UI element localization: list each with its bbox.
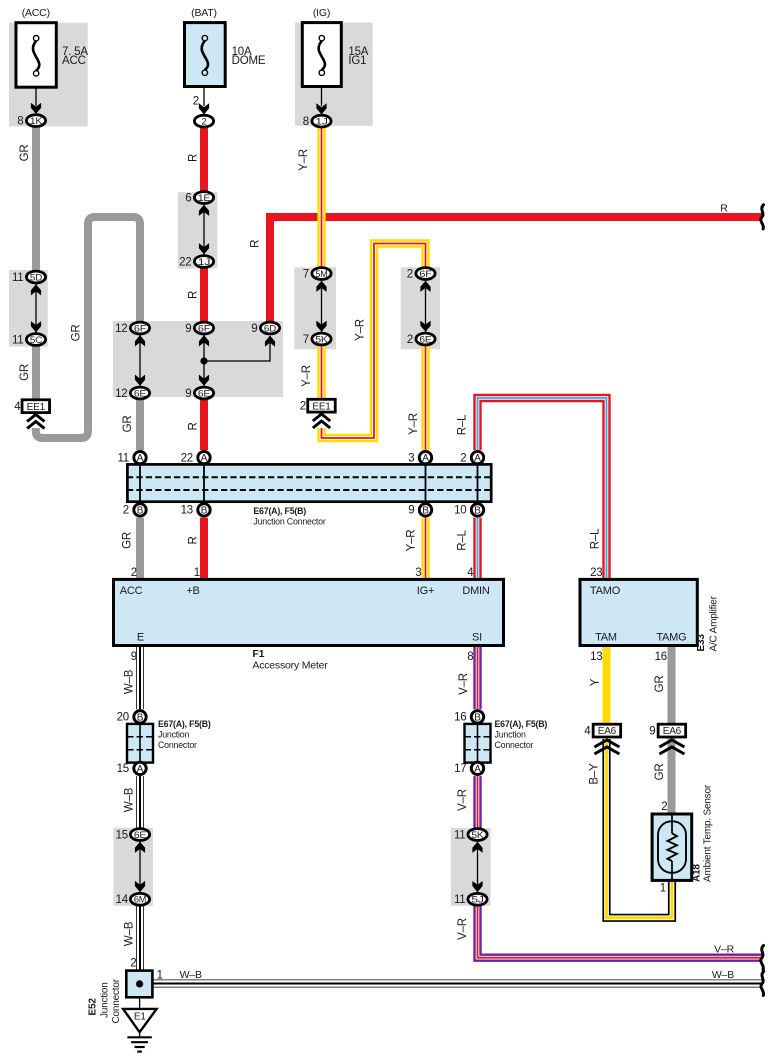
svg-text:1J: 1J <box>315 117 328 128</box>
shaded panel connectors 5M-5K <box>294 267 336 349</box>
connector 6F left <box>130 322 149 334</box>
svg-text:5J: 5J <box>471 895 484 906</box>
connector 5K <box>312 333 331 345</box>
connector 5C <box>26 334 45 346</box>
svg-text:Junction: Junction <box>100 982 111 1018</box>
svg-text:E52: E52 <box>88 998 99 1016</box>
node A col3 <box>419 451 431 464</box>
svg-text:15: 15 <box>116 829 128 841</box>
svg-text:V–R: V–R <box>457 789 469 811</box>
svg-text:E: E <box>137 632 144 644</box>
svg-text:1: 1 <box>194 567 200 579</box>
wire Y-R 5K to EE1 <box>317 346 325 401</box>
ground point EA6 right <box>658 724 686 737</box>
wire R-L junction B to F1 DMIN <box>473 518 481 581</box>
svg-text:6E: 6E <box>134 388 146 399</box>
fuse 10A DOME <box>185 23 226 87</box>
svg-text:11: 11 <box>454 894 466 906</box>
svg-text:2: 2 <box>131 567 137 579</box>
svg-text:A/C Amplifier: A/C Amplifier <box>709 595 720 651</box>
svg-text:Y: Y <box>590 678 602 686</box>
svg-text:F1: F1 <box>252 648 264 660</box>
svg-text:2: 2 <box>201 117 206 128</box>
connector 6E right <box>416 333 435 345</box>
connector 1E <box>194 192 213 204</box>
svg-text:A: A <box>474 453 481 464</box>
svg-text:R: R <box>188 422 200 430</box>
node B col2 <box>198 504 210 517</box>
arrow pair 5K-5J lower <box>472 841 482 894</box>
svg-text:(IG): (IG) <box>313 7 330 19</box>
svg-text:EE1: EE1 <box>312 401 331 412</box>
connector 1J <box>194 256 213 268</box>
connector 5J <box>468 893 487 905</box>
arrow pair 6F-6E left <box>135 334 145 387</box>
node B small left <box>134 711 146 724</box>
connector 6F mid <box>194 322 213 334</box>
svg-text:+B: +B <box>186 585 199 597</box>
break symbol R wire top <box>761 205 764 229</box>
svg-text:6E: 6E <box>419 334 431 345</box>
svg-text:5K: 5K <box>315 334 328 345</box>
svg-text:R: R <box>188 154 200 162</box>
wire R horizontal to 6D <box>270 217 762 321</box>
arrow pair 6F-6E right <box>420 280 430 334</box>
svg-text:TAMG: TAMG <box>656 632 686 644</box>
svg-text:IG+: IG+ <box>417 585 434 597</box>
node B col4 <box>471 504 483 517</box>
svg-text:3: 3 <box>408 452 414 464</box>
svg-text:5M: 5M <box>315 269 327 280</box>
svg-text:6M: 6M <box>134 895 146 906</box>
connector 6E mid <box>194 387 213 399</box>
svg-text:Y–R: Y–R <box>301 365 313 387</box>
wire GR EE1 loop to 6F <box>36 217 140 438</box>
svg-text:TAM: TAM <box>595 632 617 644</box>
svg-text:A: A <box>422 453 429 464</box>
svg-text:GR: GR <box>654 764 666 781</box>
svg-text:1J: 1J <box>198 257 211 268</box>
shaded panel connectors 1E-1J <box>178 192 218 268</box>
svg-text:A: A <box>137 764 144 775</box>
svg-text:B: B <box>137 506 144 517</box>
svg-text:6D: 6D <box>264 323 277 334</box>
node A col2 <box>198 451 210 464</box>
svg-text:R–L: R–L <box>457 529 469 550</box>
svg-text:E33: E33 <box>696 634 707 652</box>
junction connector block right <box>465 724 491 763</box>
wire R junction B to F1 +B <box>200 518 208 581</box>
wire Y-R IG to 5M <box>317 128 325 267</box>
arrow pair 6F-6E mid <box>199 334 209 387</box>
svg-text:V–R: V–R <box>458 673 470 695</box>
svg-text:R–L: R–L <box>590 528 602 549</box>
wire W-B 6M to E52 <box>136 906 144 972</box>
svg-text:GR: GR <box>19 364 31 381</box>
svg-text:13: 13 <box>181 505 193 517</box>
svg-text:GR: GR <box>122 416 134 433</box>
wire GR 6E to junction A <box>136 400 144 450</box>
connector 5D <box>26 271 45 283</box>
svg-text:14: 14 <box>116 894 129 906</box>
svg-text:6E: 6E <box>134 830 146 841</box>
svg-text:B–Y: B–Y <box>589 763 601 785</box>
fuse BAT output arrow <box>199 87 209 115</box>
svg-text:9: 9 <box>251 323 257 335</box>
connector 5K lower <box>468 829 487 841</box>
wire Y TAM to EA6 <box>603 644 611 725</box>
wire Y-R EE1 loop to 6F <box>322 244 426 439</box>
svg-text:4: 4 <box>14 401 21 413</box>
svg-text:IG1: IG1 <box>348 55 366 67</box>
svg-text:2: 2 <box>193 96 199 108</box>
node B col1 <box>134 504 146 517</box>
svg-text:B: B <box>422 506 429 517</box>
svg-text:Y–R: Y–R <box>406 530 418 552</box>
svg-text:5K: 5K <box>471 830 484 841</box>
svg-text:1E: 1E <box>198 193 210 204</box>
ground point EE1 left <box>22 400 50 413</box>
svg-text:Ambient Temp. Sensor: Ambient Temp. Sensor <box>703 784 714 882</box>
wire V-R 5J to right edge <box>478 906 762 958</box>
svg-text:ACC: ACC <box>62 55 86 67</box>
wire GR 5C to EE1 <box>32 346 40 400</box>
svg-text:A: A <box>201 453 208 464</box>
junction connector E52 <box>126 971 152 998</box>
svg-text:Y–R: Y–R <box>298 149 310 171</box>
svg-text:6F: 6F <box>134 323 147 334</box>
svg-text:V–R: V–R <box>714 944 734 956</box>
svg-text:EA6: EA6 <box>663 726 682 737</box>
shaded panel connectors 6F-6E-6D <box>113 321 283 397</box>
svg-text:5C: 5C <box>30 335 43 346</box>
svg-text:B: B <box>474 713 481 724</box>
component E33 A/C Amplifier <box>580 579 697 645</box>
svg-text:Junction: Junction <box>158 730 189 740</box>
svg-text:Accessory Meter: Accessory Meter <box>252 660 328 672</box>
svg-text:ACC: ACC <box>120 585 143 597</box>
svg-text:12: 12 <box>115 323 127 335</box>
svg-text:23: 23 <box>590 567 602 579</box>
wire W-B F1 E to junction B <box>136 644 144 709</box>
svg-text:GR: GR <box>71 325 83 342</box>
ground symbol <box>127 1032 151 1051</box>
svg-text:W–B: W–B <box>124 921 136 946</box>
svg-text:TAMO: TAMO <box>590 585 621 597</box>
shield chevron EE1 mid <box>313 414 330 428</box>
shaded panel connectors 5D-5C <box>9 270 48 347</box>
svg-text:12: 12 <box>115 388 127 400</box>
svg-text:6F: 6F <box>198 323 211 334</box>
svg-text:7: 7 <box>303 268 309 280</box>
svg-text:4: 4 <box>467 567 474 579</box>
node A col1 <box>134 451 146 464</box>
component A18 Ambient Temp Sensor <box>652 814 692 880</box>
svg-text:8: 8 <box>17 115 23 127</box>
svg-text:(BAT): (BAT) <box>191 7 217 19</box>
connector 6D <box>260 322 279 334</box>
svg-text:11: 11 <box>12 334 24 346</box>
svg-text:Connector: Connector <box>158 740 197 750</box>
svg-text:13: 13 <box>590 651 602 663</box>
shield chevron EA6 left <box>594 740 619 754</box>
svg-text:(ACC): (ACC) <box>22 7 50 19</box>
arrow pair 5M-5K <box>316 280 326 334</box>
wire GR EA6 to sensor pin 2 <box>668 739 676 816</box>
connector 6F right <box>416 268 435 280</box>
svg-text:DOME: DOME <box>232 55 266 67</box>
connector 1J below IG fuse <box>312 115 331 127</box>
svg-text:R–L: R–L <box>457 414 469 435</box>
svg-text:9: 9 <box>131 651 137 663</box>
svg-text:V–R: V–R <box>457 918 469 940</box>
wire GR junction B to F1 ACC <box>136 518 144 581</box>
svg-text:2: 2 <box>407 334 413 346</box>
shaded panel connectors 6E-6M lower <box>114 828 153 906</box>
svg-text:17: 17 <box>454 763 466 775</box>
svg-text:R: R <box>720 203 728 215</box>
svg-text:R: R <box>188 536 200 544</box>
svg-text:10: 10 <box>454 505 466 517</box>
svg-text:9: 9 <box>649 725 655 737</box>
junction connector block left <box>127 724 153 763</box>
connector 2 below BAT fuse <box>194 115 213 127</box>
svg-text:SI: SI <box>472 632 482 644</box>
wire R 1J to 6F <box>200 268 208 321</box>
wire V-R junction A to 5K <box>473 776 481 828</box>
arrow pair 1E-1J <box>199 204 209 256</box>
svg-text:1K: 1K <box>30 116 43 127</box>
wire R 6E to junction A <box>200 400 208 450</box>
ground E1 <box>123 997 157 1032</box>
svg-text:2: 2 <box>300 401 306 413</box>
svg-text:R: R <box>250 240 262 248</box>
shaded panel fuse IG <box>295 23 373 126</box>
svg-text:B: B <box>201 506 208 517</box>
svg-text:7: 7 <box>303 334 309 346</box>
svg-text:2: 2 <box>123 505 129 517</box>
wire W-B E52 to right edge <box>152 980 762 988</box>
svg-text:4: 4 <box>584 725 591 737</box>
shaded panel connectors 5K-5J lower <box>451 828 491 906</box>
shaded panel fuse ACC <box>9 23 88 127</box>
svg-text:9: 9 <box>408 505 414 517</box>
svg-text:15: 15 <box>117 763 129 775</box>
arrow pair 5D-5C <box>31 283 41 334</box>
svg-text:Y–R: Y–R <box>408 413 420 435</box>
svg-text:16: 16 <box>454 712 466 724</box>
svg-text:W–B: W–B <box>124 669 136 694</box>
svg-text:8: 8 <box>303 116 309 128</box>
wire GR 1K to 5D <box>32 126 40 270</box>
shield chevron EA6 right <box>659 740 684 754</box>
svg-text:2: 2 <box>407 268 413 280</box>
wire R BAT to 1E <box>200 128 208 191</box>
node A col4 <box>471 451 483 464</box>
connector 6E left <box>130 387 149 399</box>
svg-text:3: 3 <box>415 567 421 579</box>
node B small right <box>471 711 483 724</box>
wire V-R F1 SI to junction B <box>473 644 481 709</box>
svg-text:GR: GR <box>19 145 31 162</box>
svg-text:9: 9 <box>185 323 191 335</box>
svg-text:A: A <box>137 453 144 464</box>
svg-text:22: 22 <box>179 256 191 268</box>
svg-text:Junction Connector: Junction Connector <box>253 517 325 527</box>
svg-text:Junction: Junction <box>495 730 526 740</box>
component F1 Accessory Meter <box>114 579 504 645</box>
svg-text:6: 6 <box>185 192 191 204</box>
svg-text:E1: E1 <box>134 1012 146 1023</box>
wire R-L junction A to TAMO <box>478 398 607 581</box>
svg-text:DMIN: DMIN <box>462 585 490 597</box>
node B col3 <box>419 504 431 517</box>
fuse ACC output arrow <box>31 87 41 114</box>
wire Y-R 6E to junction A <box>421 346 429 450</box>
svg-text:2: 2 <box>661 801 667 813</box>
svg-text:E67(A), F5(B): E67(A), F5(B) <box>495 719 548 729</box>
svg-text:2: 2 <box>130 958 136 970</box>
break symbol V-R wire <box>761 946 764 970</box>
svg-text:16: 16 <box>655 651 667 663</box>
wire GR TAMG to EA6 <box>668 644 676 725</box>
svg-text:11: 11 <box>117 452 129 464</box>
svg-text:A: A <box>474 764 481 775</box>
connector 1K <box>26 115 45 127</box>
svg-text:Connector: Connector <box>495 740 534 750</box>
svg-text:1: 1 <box>157 970 163 982</box>
svg-text:8: 8 <box>467 651 473 663</box>
svg-text:GR: GR <box>654 676 666 693</box>
fuse IG output arrow <box>316 87 326 115</box>
svg-text:W–B: W–B <box>180 969 202 981</box>
svg-text:9: 9 <box>185 388 191 400</box>
svg-text:E67(A), F5(B): E67(A), F5(B) <box>253 506 306 516</box>
svg-text:EE1: EE1 <box>27 402 46 413</box>
break symbol W-B wire <box>761 971 764 995</box>
svg-text:B: B <box>474 506 481 517</box>
fuse 15A IG1 <box>302 23 341 87</box>
svg-text:W–B: W–B <box>124 787 136 812</box>
svg-text:5D: 5D <box>30 272 43 283</box>
connector 6E lower <box>130 829 149 841</box>
svg-text:Y–R: Y–R <box>355 319 367 341</box>
svg-text:6F: 6F <box>419 269 432 280</box>
svg-text:Connector: Connector <box>111 978 122 1023</box>
wire Y-R junction B to F1 IG+ <box>421 518 429 581</box>
shaded panel connectors 6F-6E right <box>401 267 440 349</box>
svg-text:B: B <box>137 713 144 724</box>
connector 6M <box>130 893 149 905</box>
arrow pair 6E-6M lower <box>135 841 145 894</box>
svg-text:11: 11 <box>454 829 466 841</box>
shield chevron EE1 left <box>27 415 44 429</box>
ground point EE1 mid <box>308 399 336 412</box>
connector 5M <box>312 268 331 280</box>
ground point EA6 left <box>593 724 621 737</box>
svg-text:1: 1 <box>660 883 666 895</box>
svg-text:2: 2 <box>460 452 466 464</box>
svg-text:11: 11 <box>12 272 24 284</box>
svg-text:22: 22 <box>181 452 193 464</box>
svg-text:20: 20 <box>117 712 129 724</box>
svg-text:W–B: W–B <box>712 969 734 981</box>
svg-text:R: R <box>188 291 200 299</box>
junction dot and branch to 6D <box>200 336 275 365</box>
node A small left <box>134 762 146 775</box>
junction connector bar E67(A) F5(B) <box>127 464 491 502</box>
svg-text:EA6: EA6 <box>598 726 617 737</box>
wire W-B junction A to 6E <box>136 776 144 828</box>
svg-text:A18: A18 <box>692 864 703 882</box>
svg-text:6E: 6E <box>198 388 210 399</box>
wire B-Y EA6 to sensor pin 1 <box>607 739 673 918</box>
node A small right <box>471 762 483 775</box>
fuse 7.5A ACC <box>16 23 56 88</box>
svg-text:GR: GR <box>122 532 134 549</box>
svg-text:E67(A), F5(B): E67(A), F5(B) <box>158 719 211 729</box>
